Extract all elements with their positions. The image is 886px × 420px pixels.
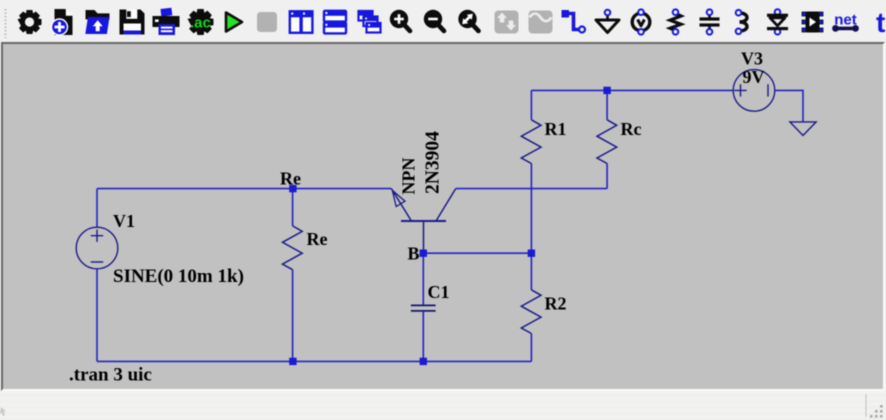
ground: [790, 122, 816, 136]
transistor Q1 2N3904: [391, 189, 455, 254]
zoom out icon: [424, 10, 444, 31]
wire V1 bottom lead: [96, 269, 98, 362]
junction node Re bottom: [289, 358, 296, 365]
sine icon (disabled): [529, 11, 553, 34]
net label tool icon: [832, 12, 859, 32]
wire C1 bottom lead: [422, 311, 424, 361]
svg-text:.ac: .ac: [190, 15, 211, 32]
wire R1 top lead: [530, 90, 532, 119]
wire bottom rail: [97, 360, 531, 362]
wire R1 bottom to R2 node: [530, 164, 532, 254]
voltage source V1: [76, 227, 118, 269]
resistor Rc: [597, 120, 617, 164]
inductor tool icon: [736, 10, 747, 34]
junction node Re top: [289, 185, 296, 192]
label Re (resistor): [307, 229, 328, 249]
tile horizontal icon: [324, 11, 346, 34]
junction node R2 top: [528, 250, 535, 257]
tile vertical icon: [290, 11, 313, 33]
node B label: [408, 244, 420, 264]
voltage source V3: [733, 70, 775, 112]
resistor R1: [521, 120, 541, 164]
ground tool icon: [596, 10, 619, 33]
zoom full extents icon: [458, 10, 478, 31]
wire Rc node to V3: [607, 89, 733, 91]
junction node Rc top: [603, 87, 610, 94]
voltage source tool icon: [632, 9, 650, 34]
label R2: [545, 294, 567, 314]
pan icon (disabled): [495, 11, 519, 34]
print icon: [153, 8, 180, 35]
label NPN: [399, 158, 419, 195]
.ac run icon: [188, 9, 214, 35]
junction node B: [420, 250, 427, 257]
save floppy icon: [120, 10, 145, 35]
capacitor C1: [411, 305, 436, 311]
label V3: [741, 49, 763, 69]
label C1: [428, 282, 450, 302]
cascade windows icon: [359, 11, 381, 33]
spice directive .tran 3 uic: [69, 365, 152, 386]
label R1: [545, 119, 567, 139]
resistor R2: [521, 290, 541, 334]
wire V1 top lead: [96, 189, 98, 228]
label 2N3904: [423, 131, 444, 194]
resistor Re: [283, 226, 303, 270]
label V1: [113, 211, 135, 231]
settings gear icon: [18, 10, 42, 34]
wire collector to Rc: [456, 188, 607, 190]
wire Re node to transistor emitter: [293, 188, 392, 190]
junction node C1 bottom: [420, 358, 427, 365]
wire top rail V1 to Re node: [97, 188, 293, 190]
wire V3 to ground: [775, 90, 803, 122]
wire Rc top lead: [606, 90, 608, 119]
capacitor tool icon: [700, 9, 720, 34]
wire R2 top lead: [530, 253, 532, 290]
component IC tool icon: [802, 12, 823, 33]
play icon: [226, 13, 242, 32]
wire B to R2 top: [423, 252, 531, 254]
wire Rc bottom lead: [606, 164, 608, 189]
stop icon (disabled): [257, 12, 277, 32]
label Rc: [621, 119, 642, 139]
wire top rail R1 to Rc node: [531, 89, 607, 91]
wire tool icon: [562, 10, 586, 33]
value SINE(0 10m 1k): [113, 266, 244, 287]
wire Re bottom lead: [292, 270, 294, 362]
label Re (net): [280, 169, 301, 189]
wire Re top lead: [292, 189, 294, 226]
resistor tool icon: [670, 9, 681, 34]
new document icon: [52, 9, 73, 35]
value 9V: [743, 67, 765, 87]
toolbar grip: [5, 9, 7, 38]
text tool icon: [876, 7, 885, 38]
toolbar icons: [0, 0, 886, 42]
diode tool icon: [767, 9, 788, 34]
wire base to C1: [422, 253, 424, 305]
wire R2 bottom lead: [530, 334, 532, 362]
zoom in icon: [390, 10, 410, 31]
open folder icon: [85, 10, 109, 34]
svg-text:t: t: [876, 7, 885, 38]
